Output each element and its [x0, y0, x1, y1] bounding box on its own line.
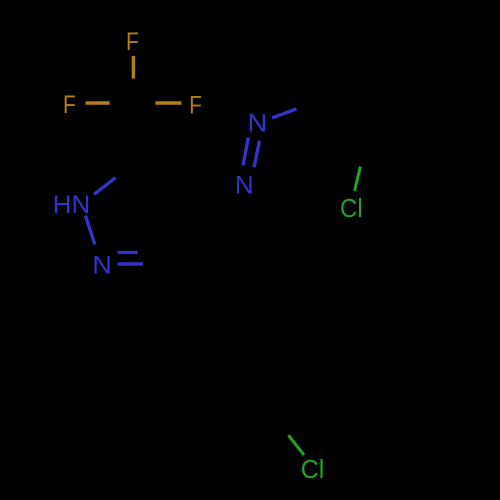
svg-text:F: F: [126, 27, 139, 55]
bond N3=N4 line b: [254, 141, 259, 168]
bond N3=N4 line a: [243, 137, 248, 165]
svg-text:Cl: Cl: [301, 456, 325, 484]
svg-text:N: N: [247, 108, 267, 137]
bond C-F left (F half): [86, 101, 110, 104]
bond N1-N2: [85, 216, 95, 245]
svg-text:F: F: [63, 90, 76, 118]
bond N1-C5 (N half): [94, 178, 116, 195]
atom Cl (bottom, para): [301, 456, 325, 484]
atom N1 H (pyrazole NH): [53, 191, 91, 218]
atom N4 (azo N upper): [247, 108, 267, 137]
atom F top: [126, 27, 139, 55]
svg-text:N: N: [235, 172, 254, 199]
svg-text:F: F: [189, 91, 202, 119]
atom N3 (azo N lower): [235, 172, 254, 199]
bond C-F top (F half), orange: [132, 56, 135, 79]
svg-text:N: N: [92, 251, 112, 280]
bond N2=C3 inner line (N half): [118, 251, 138, 254]
atom N2 (pyrazole N): [92, 251, 112, 280]
bond C-F right (F half): [155, 101, 181, 104]
bond C2'-Cl (Cl half), green: [355, 167, 361, 191]
bond N2=C3 main line (N half): [118, 262, 144, 265]
atom Cl (top right, ortho): [340, 194, 363, 223]
atom F right: [189, 91, 202, 119]
svg-text:HN: HN: [53, 191, 91, 218]
atom F left: [63, 90, 76, 118]
svg-text:Cl: Cl: [340, 194, 363, 223]
bond C4''-Cl (Cl half), green: [288, 435, 304, 455]
bond N4-C1' (N half): [272, 109, 297, 118]
